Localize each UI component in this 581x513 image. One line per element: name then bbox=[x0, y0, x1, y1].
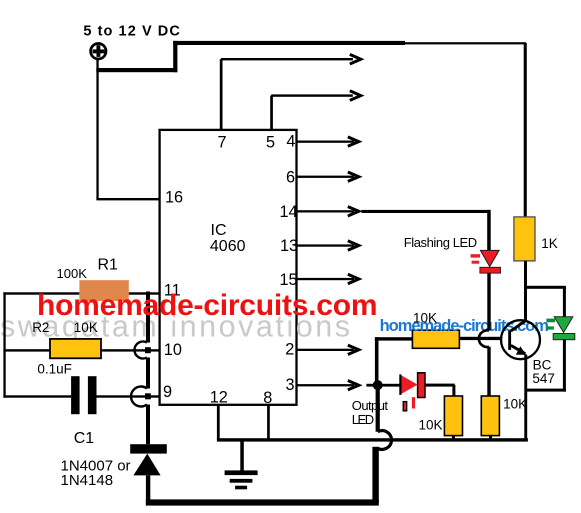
wire R2 left bbox=[3, 349, 50, 351]
svg-text:12: 12 bbox=[210, 388, 228, 406]
label Output LED bbox=[352, 398, 389, 427]
svg-text:9: 9 bbox=[163, 383, 172, 401]
wire pin 12 down bbox=[217, 405, 220, 439]
svg-text:10K: 10K bbox=[74, 320, 98, 335]
power positive terminal bbox=[91, 44, 106, 59]
wire R1 left bbox=[3, 292, 79, 294]
wire pin 15 arrow bbox=[297, 274, 359, 283]
wire pin 7 arrow bbox=[220, 54, 361, 130]
svg-text:0.1uF: 0.1uF bbox=[37, 361, 72, 376]
svg-text:16: 16 bbox=[165, 188, 183, 206]
svg-text:4060: 4060 bbox=[210, 238, 246, 255]
svg-text:10K: 10K bbox=[503, 397, 527, 412]
wire pin 6 arrow bbox=[297, 172, 359, 181]
wire right rail down to 1K bbox=[524, 43, 527, 217]
wire R1 right to pin 11 bbox=[129, 292, 160, 294]
wire supply rail top (thick) bbox=[96, 41, 526, 72]
wire supply drop to pin 16 bbox=[96, 59, 160, 200]
ground bbox=[225, 439, 258, 489]
green LED D3 bbox=[546, 317, 574, 340]
wire hop over ground rail bbox=[378, 431, 392, 450]
wire left rail bbox=[3, 292, 5, 397]
svg-text:13: 13 bbox=[280, 237, 298, 255]
wire pin 4 arrow bbox=[297, 137, 359, 146]
wire emitter down to rail bbox=[524, 355, 527, 441]
wire pin 14 arrow bbox=[297, 207, 359, 216]
wire hop at pin 9 bbox=[131, 387, 151, 407]
svg-text:R2: R2 bbox=[32, 320, 49, 335]
svg-text:10: 10 bbox=[164, 341, 182, 359]
flashing LED D2 (red) bbox=[471, 250, 501, 273]
wire block top left corner bbox=[375, 337, 413, 385]
svg-text:1K: 1K bbox=[541, 236, 558, 251]
wire ground rail bbox=[217, 438, 528, 441]
wire base from 10K bbox=[460, 337, 510, 340]
wire hop at pin 10 bbox=[134, 341, 150, 358]
svg-text:Output: Output bbox=[352, 398, 389, 413]
svg-text:3: 3 bbox=[286, 376, 295, 394]
diode D1 1N4007 bbox=[130, 444, 167, 501]
IC 4060 box bbox=[160, 130, 297, 405]
svg-text:10K: 10K bbox=[413, 311, 437, 326]
wire R2 right to pin 10 bbox=[101, 349, 160, 351]
svg-text:4: 4 bbox=[286, 133, 295, 151]
label BC 547 bbox=[532, 357, 555, 386]
resistor R1 100K (orange) bbox=[79, 280, 128, 301]
wire green LED return to emitter bbox=[526, 340, 566, 392]
transistor body fill bbox=[502, 321, 539, 358]
wire bottom rail bbox=[146, 499, 379, 505]
wire pin 3 arrow bbox=[297, 381, 359, 390]
wire output LED to 10K bbox=[425, 384, 455, 397]
resistor 10K vertical 2 bbox=[481, 396, 499, 439]
svg-text:100K: 100K bbox=[57, 266, 88, 281]
wire hop to 10K resistor bbox=[487, 347, 490, 396]
svg-text:1N4148: 1N4148 bbox=[61, 472, 114, 489]
resistor 1K bbox=[514, 217, 535, 261]
resistor R2 10K (yellow) bbox=[50, 339, 101, 358]
wire dot down to hop bbox=[376, 389, 380, 432]
wire vertical junction line to diode bbox=[146, 292, 150, 445]
wire C1 left bbox=[3, 395, 71, 397]
svg-text:10K: 10K bbox=[419, 418, 443, 433]
wire branch to green LED bbox=[525, 286, 566, 317]
capacitor C1 0.1uF bbox=[71, 376, 96, 414]
resistor 10K vertical 1 bbox=[444, 396, 462, 439]
svg-text:14: 14 bbox=[280, 203, 298, 221]
svg-text:7: 7 bbox=[218, 133, 227, 151]
svg-text:Flashing LED: Flashing LED bbox=[404, 235, 478, 250]
svg-text:6: 6 bbox=[286, 169, 295, 187]
svg-text:homemade-circuits.com: homemade-circuits.com bbox=[37, 289, 378, 322]
IC 4060 label bbox=[210, 222, 246, 255]
resistor 10K horizontal bbox=[412, 330, 459, 348]
wire hop over base wire bbox=[479, 330, 489, 347]
svg-text:2: 2 bbox=[285, 341, 294, 359]
wire flashing LED cathode down bbox=[487, 273, 490, 331]
wire pin 8 down bbox=[267, 405, 270, 439]
wire dot to output LED bbox=[380, 384, 401, 387]
wire pin 2 arrow bbox=[297, 345, 359, 354]
transistor Q1 BC547 bbox=[501, 320, 540, 359]
svg-text:LED: LED bbox=[352, 412, 374, 427]
label 1N4007 or / 1N4148 bbox=[61, 458, 131, 489]
svg-text:5: 5 bbox=[266, 133, 275, 151]
svg-text:C1: C1 bbox=[74, 430, 95, 447]
svg-text:547: 547 bbox=[532, 371, 555, 386]
wire 1K bottom to collector bbox=[524, 261, 527, 322]
wire pin 13 arrow bbox=[297, 241, 359, 250]
node junction dot bbox=[373, 380, 383, 390]
wire pin 14 to flashing LED bbox=[362, 210, 491, 251]
wire riser to bottom rail bbox=[372, 447, 378, 503]
svg-text:IC: IC bbox=[211, 222, 227, 239]
svg-text:R1: R1 bbox=[98, 256, 119, 273]
wire pin3 stub to dot bbox=[366, 384, 373, 387]
svg-text:5 to 12 V DC: 5 to 12 V DC bbox=[83, 24, 180, 40]
wire C1 right to pin 9 bbox=[97, 395, 160, 397]
svg-text:8: 8 bbox=[263, 389, 272, 407]
output LED D4 (red) bbox=[400, 373, 425, 411]
wire pin 5 arrow bbox=[270, 91, 361, 130]
svg-text:15: 15 bbox=[280, 271, 298, 289]
